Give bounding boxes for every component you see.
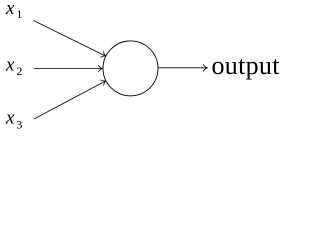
arrowhead on x1 wire xyxy=(101,52,108,59)
arrowhead on x3 wire xyxy=(101,78,108,85)
svg-text:2: 2 xyxy=(16,64,22,78)
node x1 label xyxy=(5,0,22,21)
wire from x2 to neuron xyxy=(34,68,103,70)
svg-text:output: output xyxy=(212,51,281,80)
arrowhead on output wire xyxy=(203,65,207,71)
svg-text:x: x xyxy=(5,108,15,129)
wire from neuron to output xyxy=(158,67,207,69)
perceptron diagram xyxy=(0,0,280,138)
arrowhead on x2 wire xyxy=(98,65,102,71)
wire from x1 to neuron xyxy=(34,21,106,57)
node x3 label xyxy=(5,108,22,132)
svg-text:1: 1 xyxy=(16,7,22,21)
node x2 label xyxy=(5,55,22,78)
neuron circle xyxy=(103,41,158,96)
svg-text:x: x xyxy=(5,55,15,76)
svg-text:3: 3 xyxy=(16,118,22,132)
svg-text:x: x xyxy=(5,0,15,19)
wire from x3 to neuron xyxy=(34,81,106,119)
